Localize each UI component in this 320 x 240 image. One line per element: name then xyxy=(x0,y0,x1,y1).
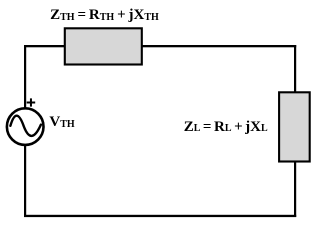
source VTH: AC voltage source circle xyxy=(7,108,44,145)
wire: bottom horizontal from bottom-left corner to bottom-right corner xyxy=(24,215,296,217)
polarity plus sign at top of source xyxy=(27,98,36,106)
label ZTH = RTH + jXTH (top impedance value) xyxy=(50,7,159,25)
source VTH: sine wave inside circle xyxy=(10,116,41,136)
wire: left vertical from top-left corner down to bottom-left corner xyxy=(24,45,26,217)
load impedance box ZL (gray rectangle in right wire) xyxy=(279,92,310,161)
label ZL = RL + jXL (load impedance value) xyxy=(184,119,268,137)
label VTH (source voltage) xyxy=(49,114,74,132)
wire: top horizontal from top-left corner to top-right corner xyxy=(24,45,296,47)
wire: right vertical from top-right corner down to bottom-right corner xyxy=(294,45,296,217)
impedance box ZTH (Thevenin impedance, gray rectangle in top wire) xyxy=(65,28,142,64)
